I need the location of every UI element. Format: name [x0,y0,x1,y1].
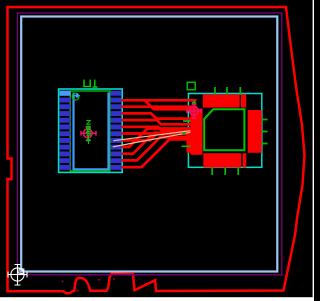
U2 top pins (green) [215,87,240,95]
U2 left pad block [190,109,202,155]
U2 silkscreen body with chamfer (green) [204,109,244,150]
U2 courtyard outline (cyan) [188,94,261,168]
U2 right pins (green) [262,120,268,144]
wire pad5 [122,120,195,124]
U1 inner body rectangle (azure) [74,93,109,170]
wire pad4 [122,113,195,118]
U1 designator text [84,80,97,87]
U1 pad 1 (azure highlighted) [60,91,71,96]
white board origin marker [8,265,27,286]
U2 top pad block 2 [241,94,246,107]
U1 pad column right (blue pads) [111,91,122,170]
U1 vertical value text (green) [87,121,90,144]
ratsnest line 2 (tan) [113,132,194,147]
wire pad12 [122,139,193,167]
wire pad2 branch [145,100,197,109]
U2 left pins (green) [182,121,191,146]
wire pad11 [122,137,193,160]
U2 pin 1 square marker (green) [187,82,195,89]
U1 silkscreen body (green) [70,91,110,171]
window edge white right [313,0,314,301]
trace junction bar at U2 left [187,132,192,153]
U2 origin green dot [192,100,197,105]
wire pad10 [122,133,193,154]
window edge white bottom [0,297,314,301]
U2 top pad block [203,94,240,107]
U1 origin marker (pink crosshair) [81,127,96,141]
U2 origin marker (pink crosshair) [187,104,201,118]
U2 bottom pad block [203,153,241,167]
U2 bottom pad block 2 [243,153,247,167]
purple inner rectangle (board region) [18,13,282,275]
wire pad7 [122,134,193,138]
U2 right pad block [248,110,262,153]
wire pad2 [122,99,197,102]
light blue routing area rectangle [21,17,277,272]
U1 courtyard outline (teal) [59,89,123,172]
wire pad6 [122,127,193,130]
ratsnest line 1 (tan) [114,130,194,140]
wire pad8 [122,134,193,140]
U1 pad column left (blue pads) [60,98,71,170]
wire pad3 [122,105,197,108]
stray dots (red) [62,278,115,291]
wire pad9 [122,129,193,148]
U2 bottom pins (green) [212,168,238,176]
U1 pin-1 marker circle [72,93,79,100]
U1 pin-1 star (azure) [74,93,81,99]
